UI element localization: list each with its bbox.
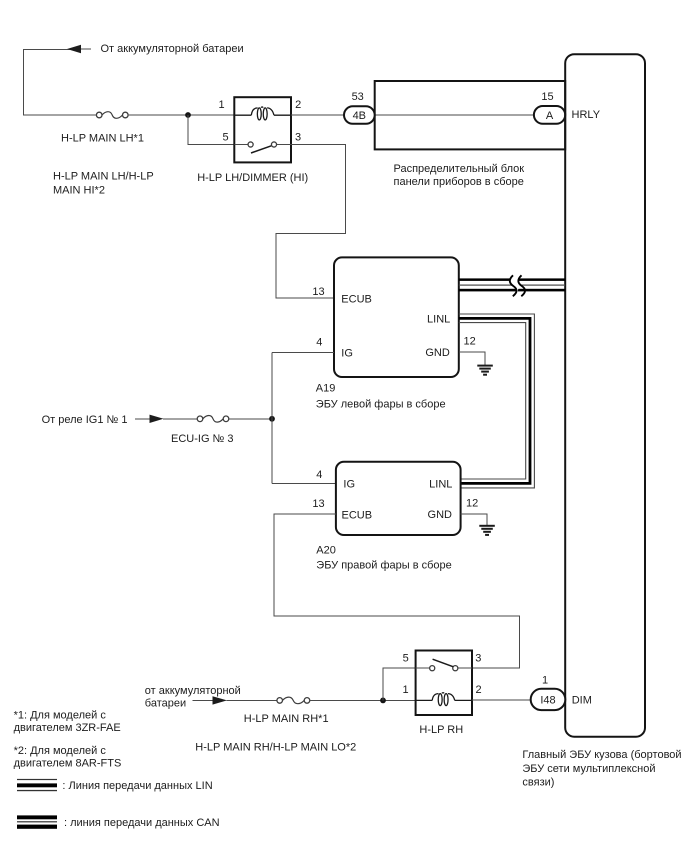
junction dot (bottom) xyxy=(380,698,386,704)
wire battery feed left vertical xyxy=(24,50,97,116)
svg-text:MAIN HI*2: MAIN HI*2 xyxy=(53,184,105,196)
svg-text:GND: GND xyxy=(428,509,453,521)
svg-text:двигателем 3ZR-FAE: двигателем 3ZR-FAE xyxy=(14,722,121,734)
svg-text:ЭБУ сети мультиплексной: ЭБУ сети мультиплексной xyxy=(522,763,655,775)
wire relay pin 2 to connector I48 xyxy=(472,699,531,701)
ground wire stub (A20 GND) xyxy=(461,514,487,526)
svg-text:5: 5 xyxy=(403,653,409,665)
junction block box (Распределительный блок) xyxy=(375,81,566,149)
svg-text:H-LP MAIN RH*1: H-LP MAIN RH*1 xyxy=(244,713,329,725)
connector oval I48 xyxy=(531,689,566,710)
svg-text:DIM: DIM xyxy=(572,695,592,707)
arrowhead from battery (bottom) xyxy=(192,696,277,704)
svg-text:ЭБУ левой фары в сборе: ЭБУ левой фары в сборе xyxy=(316,399,446,411)
svg-text:ECUB: ECUB xyxy=(342,509,373,521)
wire fuse to relay pin 1 (bottom) xyxy=(310,699,416,701)
svg-text:4: 4 xyxy=(316,469,322,481)
svg-text:GND: GND xyxy=(425,347,450,359)
svg-text:4B: 4B xyxy=(353,110,366,122)
svg-text:1: 1 xyxy=(219,99,225,111)
junction dot IG rail xyxy=(269,416,275,422)
svg-text:H-LP LH/DIMMER (HI): H-LP LH/DIMMER (HI) xyxy=(197,172,308,184)
CAN line break symbol xyxy=(510,275,525,296)
svg-text:*2: Для моделей с: *2: Для моделей с xyxy=(14,745,107,757)
fuse H-LP MAIN LH xyxy=(96,112,128,119)
junction node dot xyxy=(185,112,191,118)
ECU A19 box xyxy=(334,257,459,377)
ECU A20 box xyxy=(336,462,461,535)
relay coil (pins 1-2, bottom relay) xyxy=(416,693,472,706)
svg-text:батареи: батареи xyxy=(145,698,186,710)
ground wire stub (A19 GND) xyxy=(459,352,485,365)
svg-text:А19: А19 xyxy=(316,382,336,394)
svg-text:LINL: LINL xyxy=(429,478,452,490)
wire relay pin 3 to A19 ECUB xyxy=(276,145,346,299)
svg-text:13: 13 xyxy=(312,498,324,510)
CAN bus line A19 to body ECU xyxy=(459,278,565,291)
wire branch to relay pin 5 (bottom) xyxy=(383,668,416,700)
svg-text:ECUB: ECUB xyxy=(341,293,372,305)
svg-text:H-LP MAIN LH*1: H-LP MAIN LH*1 xyxy=(61,132,144,144)
svg-text:A: A xyxy=(546,110,554,122)
svg-text:5: 5 xyxy=(223,131,229,143)
svg-text:3: 3 xyxy=(475,653,481,665)
connector oval A xyxy=(534,106,565,124)
relay switch (pins 5-3, bottom relay) xyxy=(416,659,472,671)
svg-text:53: 53 xyxy=(352,91,364,103)
legend LIN line symbol xyxy=(17,779,57,791)
arrowhead from IG1 relay xyxy=(135,415,197,423)
fuse H-LP MAIN RH xyxy=(277,697,310,704)
wire relay pin 2 to connector 4B xyxy=(291,114,344,116)
svg-text:: линия передачи данных CAN: : линия передачи данных CAN xyxy=(64,817,220,829)
relay H-LP RH box xyxy=(416,651,472,716)
arrowhead to battery (left) xyxy=(67,45,91,53)
svg-text:от аккумуляторной: от аккумуляторной xyxy=(145,685,241,697)
wire branch to relay pin 5 xyxy=(188,115,234,145)
label А19 / ЭБУ левой фары в сборе xyxy=(316,382,446,410)
svg-text:ECU-IG № 3: ECU-IG № 3 xyxy=(171,433,234,445)
svg-text:ЭБУ правой фары в сборе: ЭБУ правой фары в сборе xyxy=(316,560,451,572)
svg-text:2: 2 xyxy=(475,684,481,696)
svg-text:1: 1 xyxy=(402,684,408,696)
label Главный ЭБУ кузова xyxy=(522,749,681,788)
svg-text:IG: IG xyxy=(343,479,355,491)
wire fuse to relay pin 1 xyxy=(128,114,234,116)
svg-text:*1: Для моделей с: *1: Для моделей с xyxy=(14,710,107,722)
wire 4B to A inside junction block xyxy=(375,114,534,116)
svg-text:От аккумуляторной батареи: От аккумуляторной батареи xyxy=(101,43,244,55)
svg-text:А20: А20 xyxy=(316,545,336,557)
label от аккумуляторной батареи (bottom) xyxy=(145,685,241,710)
svg-text:HRLY: HRLY xyxy=(572,109,601,121)
svg-text:H-LP MAIN RH/H-LP MAIN LO*2: H-LP MAIN RH/H-LP MAIN LO*2 xyxy=(195,742,356,754)
relay coil (pins 1-2) xyxy=(234,107,291,120)
svg-text:От реле IG1 № 1: От реле IG1 № 1 xyxy=(42,414,128,426)
svg-text:Распределительный блок: Распределительный блок xyxy=(394,163,525,175)
svg-text:H-LP RH: H-LP RH xyxy=(419,724,463,736)
svg-text:I48: I48 xyxy=(540,694,555,706)
wire fuse to IG junction xyxy=(229,418,272,420)
relay H-LP LH/DIMMER (HI) box xyxy=(234,97,291,162)
label Распределительный блок панели приборов в сборе xyxy=(394,163,525,188)
svg-text:двигателем 8AR-FTS: двигателем 8AR-FTS xyxy=(14,757,122,769)
svg-text:H-LP MAIN LH/H-LP: H-LP MAIN LH/H-LP xyxy=(53,171,154,183)
IG rail vertical + branches to A19 IG and A20 IG xyxy=(272,353,336,484)
svg-text:панели приборов в сборе: панели приборов в сборе xyxy=(394,176,524,188)
legend CAN line symbol xyxy=(17,815,57,828)
svg-text:связи): связи) xyxy=(522,777,554,789)
footnote *2 xyxy=(14,745,122,769)
connector oval 4B xyxy=(344,106,375,124)
ground symbol (A19) xyxy=(477,366,493,375)
footnote *1 xyxy=(14,710,121,735)
svg-text:1: 1 xyxy=(542,674,548,686)
wire A20 ECUB to relay H-LP RH pin 3 xyxy=(274,514,520,668)
svg-text:15: 15 xyxy=(541,91,553,103)
svg-text:4: 4 xyxy=(316,337,322,349)
main body ECU box xyxy=(565,54,645,737)
fuse ECU-IG xyxy=(197,416,229,423)
svg-text:12: 12 xyxy=(464,336,476,348)
ground symbol (A20) xyxy=(479,526,495,535)
svg-text:Главный ЭБУ кузова (бортовой: Главный ЭБУ кузова (бортовой xyxy=(522,749,681,761)
svg-text:: Линия передачи данных LIN: : Линия передачи данных LIN xyxy=(62,780,212,792)
label А20 / ЭБУ правой фары в сборе xyxy=(316,545,451,572)
svg-text:13: 13 xyxy=(312,286,324,298)
svg-text:LINL: LINL xyxy=(427,314,450,326)
label H-LP MAIN LH/H-LP MAIN HI*2 xyxy=(53,171,154,197)
relay switch (pins 5-3) xyxy=(234,142,291,153)
LIN bus line A19 LINL to A20 LINL (triple line) xyxy=(459,314,535,488)
svg-text:IG: IG xyxy=(341,347,353,359)
svg-text:2: 2 xyxy=(295,99,301,111)
svg-text:3: 3 xyxy=(295,131,301,143)
svg-text:12: 12 xyxy=(466,497,478,509)
